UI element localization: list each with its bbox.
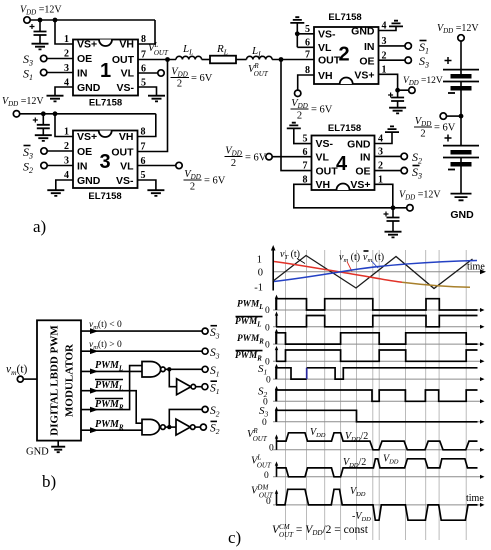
battery B2 (lower 6V stack) xyxy=(443,135,479,170)
svg-text:IN: IN xyxy=(364,41,375,53)
terminal VDD1 xyxy=(24,17,30,23)
row S3 xyxy=(259,405,485,428)
node VS+ VDD junction chip2 xyxy=(395,88,400,93)
value label VDD/2=6V (chip1 VL) xyxy=(171,67,213,90)
terminal S2 chip4 xyxy=(401,153,407,159)
svg-text:a): a) xyxy=(33,217,46,236)
capacitor C3 (chip2 VS+) xyxy=(388,90,404,107)
node VS- junction chip2 xyxy=(295,31,300,36)
capacitor C1 (decoupling, chip1) xyxy=(30,20,47,44)
svg-text:VL: VL xyxy=(120,161,134,173)
node NAND1 out junction xyxy=(167,367,171,371)
ground (chip2 VS-, inverted) xyxy=(290,17,304,23)
wire VS+ chip2 to VDD xyxy=(379,74,409,90)
terminal S3bar chip3 xyxy=(41,148,47,154)
svg-text:1: 1 xyxy=(257,255,262,266)
terminal VDD battery top xyxy=(458,35,464,41)
svg-text:GND: GND xyxy=(77,175,101,187)
terminal S1bar chip2 xyxy=(405,43,411,49)
svg-text:EL7158: EL7158 xyxy=(88,191,121,202)
svg-text:GND: GND xyxy=(77,82,101,94)
terminal S1bar output xyxy=(202,384,208,390)
inductor LL left xyxy=(176,56,202,59)
svg-text:2: 2 xyxy=(231,158,236,169)
svg-text:VS+: VS+ xyxy=(350,179,370,191)
pin numbers U4 xyxy=(303,134,384,186)
ground (C4) xyxy=(385,232,402,238)
wire mid node to terminal xyxy=(447,115,462,117)
svg-text:1: 1 xyxy=(100,60,111,82)
wire VS- chip4 to ground xyxy=(294,128,312,143)
wire S2 to IN chip3 xyxy=(47,165,73,167)
wire VDD2 to pin1 VS+ chip3 xyxy=(55,114,73,137)
terminal S2 output xyxy=(202,406,208,412)
wire GND pin4 chip2 to ground xyxy=(379,26,397,30)
value label VDD/2=6V (battery mid) xyxy=(414,116,456,140)
wire PWM_Rbar to NAND1 top input xyxy=(81,366,142,410)
svg-text:7: 7 xyxy=(305,50,310,61)
wire VS+ chip4 to VDD xyxy=(375,184,407,208)
svg-text:2: 2 xyxy=(297,111,302,122)
wire S1bar to IN chip2 xyxy=(379,45,406,47)
op-amp driver U3 EL7158 xyxy=(73,131,138,203)
svg-text:2: 2 xyxy=(338,44,349,66)
svg-text:GND: GND xyxy=(450,209,474,221)
node VDD2-C2 junction xyxy=(41,111,46,116)
wire B1 to mid node xyxy=(460,90,462,146)
svg-text:VS-: VS- xyxy=(116,82,134,94)
svg-text:-1: -1 xyxy=(254,283,263,294)
svg-text:0: 0 xyxy=(262,418,267,428)
wire B2 to ground xyxy=(460,166,462,193)
svg-text:8: 8 xyxy=(141,127,146,138)
svg-text:VH: VH xyxy=(316,179,331,191)
wire VDD1 to pin1 VS+ xyxy=(55,20,73,44)
capacitor C2 (decoupling, chip3) xyxy=(33,114,50,135)
svg-text:0: 0 xyxy=(266,497,271,507)
ground (chip4 GND, inverted) xyxy=(385,126,399,132)
terminal S3bar chip4 xyxy=(401,167,407,173)
ground (C3) xyxy=(389,108,406,114)
terminal VL chip4 xyxy=(266,154,272,160)
node VOUT_R junction xyxy=(279,57,284,62)
wire vm>0 output to S3 xyxy=(81,350,202,352)
curve v_m continuation (brown) xyxy=(402,282,470,287)
wire S3 to OE xyxy=(47,58,73,60)
svg-text:EL7158: EL7158 xyxy=(89,98,122,109)
grid lines xyxy=(286,250,467,540)
terminal VL chip3 xyxy=(176,162,182,168)
row PWM_R xyxy=(237,329,485,351)
svg-text:0: 0 xyxy=(266,376,271,386)
op-amp driver U2 EL7158 xyxy=(314,12,379,84)
curve v_m bar (blue) xyxy=(274,261,477,282)
svg-text:VS-: VS- xyxy=(318,29,336,41)
wire GND pin4 chip3 xyxy=(56,180,73,190)
wire PWM_Lbar to NAND2 top input xyxy=(81,391,142,424)
svg-text:GND: GND xyxy=(347,139,371,151)
op-amp driver U1 EL7158 xyxy=(73,39,138,109)
ground (chip1 GND) xyxy=(47,96,64,102)
ground (C2) xyxy=(35,135,52,141)
wire VS- pin5 chip3 xyxy=(138,180,156,190)
wire S1 blue edge xyxy=(306,368,308,379)
svg-text:vm (t): vm (t) xyxy=(363,252,384,264)
svg-text:1: 1 xyxy=(64,127,69,138)
svg-text:OUT: OUT xyxy=(316,166,339,178)
svg-text:time: time xyxy=(466,493,484,504)
gate NAND2 xyxy=(142,419,165,434)
svg-text:EL7158: EL7158 xyxy=(328,123,361,134)
ground (C1) xyxy=(32,44,49,50)
terminal S1 output xyxy=(202,366,208,372)
svg-text:OUT: OUT xyxy=(111,147,134,159)
node VS+ VDD junction chip4 xyxy=(391,205,396,210)
svg-text:0: 0 xyxy=(269,444,274,454)
svg-text:IN: IN xyxy=(77,68,88,80)
svg-text:1: 1 xyxy=(64,34,69,45)
svg-text:= 6V: = 6V xyxy=(434,123,456,134)
svg-text:8: 8 xyxy=(141,34,146,45)
svg-text:VS+: VS+ xyxy=(77,39,97,51)
wire INV1 to S1bar xyxy=(196,386,202,388)
svg-text:0: 0 xyxy=(264,471,269,481)
svg-text:= 6V: = 6V xyxy=(245,153,267,164)
wire INV2 to S2bar xyxy=(195,426,200,428)
wire vm<0 output to S3bar xyxy=(81,330,202,332)
row PWM_L xyxy=(237,295,485,316)
node VDD1-VS+ junction xyxy=(53,18,58,23)
block DIGITAL LBDD PWM MODULATOR xyxy=(37,320,81,440)
node VDD/2 mid junction xyxy=(459,114,464,119)
wire VS-/VL chip2 to ground xyxy=(297,23,314,48)
terminal VDD2 xyxy=(13,111,19,117)
wire S3 to OE chip2 xyxy=(379,59,406,61)
svg-text:VL: VL xyxy=(318,42,332,54)
row V_OUT^L xyxy=(251,454,485,482)
wire terminal to battery B1 xyxy=(460,41,462,70)
svg-text:0: 0 xyxy=(265,358,270,368)
wire VS- pin5 chip1 xyxy=(138,87,157,96)
svg-text:0: 0 xyxy=(265,306,270,316)
terminal S2 chip3 xyxy=(41,162,47,168)
terminal S3 output xyxy=(202,348,208,354)
value label VDD/2=6V (chip3 VL) xyxy=(184,169,226,193)
row V_OUT^R xyxy=(247,427,485,454)
svg-text:MODULATOR: MODULATOR xyxy=(64,343,76,417)
node VOUT_L junction xyxy=(165,57,170,62)
svg-text:OE: OE xyxy=(355,166,370,178)
terminal VDD/2 battery xyxy=(440,113,446,119)
wire NAND1 out down to INV1 xyxy=(169,369,176,386)
svg-text:c): c) xyxy=(228,528,241,547)
svg-text:EL7158: EL7158 xyxy=(328,12,361,23)
wire VDD2 to pin8 VH chip3 xyxy=(138,114,156,137)
svg-text:IN: IN xyxy=(360,152,371,164)
wire S3bar to OE chip3 xyxy=(47,150,73,152)
wire NAND1 out to S1 xyxy=(165,368,202,370)
wire VH chip4 down to VDD xyxy=(294,184,393,208)
ground (chip1 VS-) xyxy=(148,96,165,102)
svg-text:OUT: OUT xyxy=(318,55,341,67)
wire S2 to IN chip4 xyxy=(375,155,402,157)
svg-text:4: 4 xyxy=(336,153,348,175)
svg-text:time: time xyxy=(467,262,485,273)
svg-text:VL: VL xyxy=(121,68,135,80)
ground (chip3 GND) xyxy=(47,190,64,196)
node VDD2-VS+ junction xyxy=(53,111,58,116)
svg-text:OE: OE xyxy=(77,53,92,65)
svg-text:IN: IN xyxy=(77,161,88,173)
ground (chip4 VS-, inverted) xyxy=(287,123,301,129)
svg-text:7: 7 xyxy=(303,161,308,172)
svg-text:OE: OE xyxy=(77,146,92,158)
wire NAND2 out to INV2 xyxy=(165,426,176,428)
row PWM_R bar xyxy=(235,346,485,368)
svg-text:0: 0 xyxy=(265,341,270,351)
wire VL chip4 to terminal xyxy=(272,156,311,158)
row PWM_L bar xyxy=(235,311,485,333)
svg-text:vT (t): vT (t) xyxy=(280,249,300,261)
svg-text:VS-: VS- xyxy=(316,138,334,150)
ground (battery) xyxy=(451,194,472,201)
svg-text:VS-: VS- xyxy=(116,175,134,187)
ground (modulator) xyxy=(51,441,65,453)
gate NAND1 xyxy=(142,362,165,378)
top graph time axis xyxy=(273,271,480,273)
node VDD1-C1 junction xyxy=(38,18,43,23)
terminal VL chip1 xyxy=(158,70,164,76)
svg-text:VH: VH xyxy=(119,131,134,143)
terminal vm input xyxy=(17,376,23,382)
row S2 xyxy=(258,386,485,408)
wire S1 to IN xyxy=(47,72,73,74)
wire GND pin4 chip4 to ground xyxy=(375,132,393,144)
wire OUT chip1 to node xyxy=(138,59,176,61)
ground (chip2 GND, inverted) xyxy=(389,21,403,27)
wire PWM_R to NAND2 xyxy=(81,429,142,431)
wire node VOUT_R down to chip4 OUT xyxy=(281,60,312,171)
wire VDD1 to pin8 VH xyxy=(138,20,155,44)
svg-text:OUT: OUT xyxy=(112,54,135,66)
gate INV1 xyxy=(177,379,196,395)
wire VDD2 rail xyxy=(20,113,156,115)
svg-text:= 6V: = 6V xyxy=(191,73,213,84)
svg-text:= 6V: = 6V xyxy=(311,105,333,116)
row S1 xyxy=(258,363,485,386)
svg-text:VH: VH xyxy=(318,70,333,82)
wire LL2 to node VOUT_R xyxy=(272,59,314,61)
terminal VDD chip2 xyxy=(409,87,415,93)
wire VDD1 rail xyxy=(30,19,155,21)
svg-text:vm (t): vm (t) xyxy=(339,252,360,264)
ground (chip3 VS-) xyxy=(147,190,164,196)
svg-text:b): b) xyxy=(42,472,56,491)
top graph y axis xyxy=(272,250,274,291)
terminal VDD chip4 xyxy=(407,205,413,211)
row V_OUT^DM xyxy=(251,484,485,524)
curve v_T triangle wave xyxy=(273,256,472,289)
battery B1 (upper 6V stack) xyxy=(443,57,479,93)
svg-text:VS+: VS+ xyxy=(77,131,97,143)
svg-text:3: 3 xyxy=(99,151,110,173)
svg-text:DIGITAL LBDD PWM: DIGITAL LBDD PWM xyxy=(49,325,61,436)
wire VL pin6 chip1 xyxy=(138,72,158,74)
svg-text:2: 2 xyxy=(177,79,182,90)
wire S3bar to OE chip4 xyxy=(375,170,402,172)
pin numbers U2 xyxy=(305,21,387,77)
pin numbers U1 xyxy=(64,34,146,89)
curve v_m (red) xyxy=(274,262,402,283)
wire RL to LL2 xyxy=(236,59,247,61)
svg-text:VL: VL xyxy=(316,152,330,164)
terminal S3 chip1 xyxy=(41,55,47,61)
svg-text:OE: OE xyxy=(359,56,374,68)
terminal S1 chip1 xyxy=(41,69,47,75)
svg-text:0: 0 xyxy=(265,324,270,334)
wire NAND2 out up to S2 xyxy=(169,409,202,427)
wire PWM_L to NAND1 xyxy=(81,370,142,372)
svg-text:vm(t): vm(t) xyxy=(6,364,28,378)
wire VH chip2 down to VDD/2 terminal xyxy=(298,75,314,90)
op-amp driver U4 EL7158 xyxy=(312,123,375,191)
pin numbers U3 xyxy=(64,127,146,182)
svg-text:0: 0 xyxy=(258,268,263,279)
wire LL to RL xyxy=(202,59,210,61)
svg-text:7: 7 xyxy=(141,142,146,153)
svg-text:VS+: VS+ xyxy=(354,70,374,82)
resistor RL xyxy=(210,56,236,64)
svg-text:2: 2 xyxy=(190,182,195,193)
wire vm to block xyxy=(23,378,37,380)
value label VDD/2=6V (chip2 VH) xyxy=(291,98,333,122)
inductor LL right xyxy=(247,56,273,59)
terminal S2bar output xyxy=(200,424,206,430)
svg-text:2: 2 xyxy=(420,129,425,140)
wire node VOUT_L down to chip3 OUT xyxy=(138,60,168,152)
svg-text:VH: VH xyxy=(119,39,134,51)
node NAND2 out junction xyxy=(167,425,171,429)
value label VDD/2=6V (chip4 VL) xyxy=(225,146,267,170)
wire VL pin6 chip3 xyxy=(138,165,176,167)
terminal S3bar output xyxy=(202,328,208,334)
wire GND pin4 chip1 xyxy=(55,87,73,96)
svg-text:= 6V: = 6V xyxy=(204,176,226,187)
svg-text:GND: GND xyxy=(26,447,49,458)
capacitor C4 (chip4 VS+) xyxy=(384,208,400,232)
gate INV2 xyxy=(176,419,195,435)
terminal VH chip2 xyxy=(295,90,301,96)
terminal S3 chip2 xyxy=(405,57,411,63)
svg-text:GND: GND xyxy=(351,26,375,38)
